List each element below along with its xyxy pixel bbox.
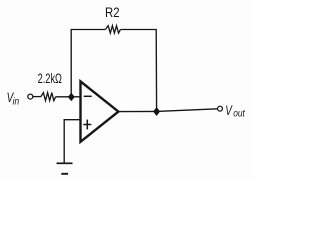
label 2.2kΩ <box>38 71 63 86</box>
svg-text:out: out <box>233 108 245 119</box>
op-amp minus sign <box>84 95 92 97</box>
op-amp plus sign <box>83 124 91 126</box>
wire ground to non-inverting input <box>64 120 81 164</box>
wire resistor to op-amp inverting input <box>56 96 81 98</box>
op-amp U1 triangle <box>81 81 119 141</box>
svg-text:in: in <box>13 96 20 107</box>
ground bar short <box>61 173 68 175</box>
node Vout terminal <box>218 106 223 111</box>
ground bar long <box>57 162 73 164</box>
wire junction to Vout terminal <box>157 109 218 112</box>
resistor R2 <box>105 26 120 33</box>
junction node at inverting input <box>69 93 75 100</box>
svg-text:R2: R2 <box>105 4 120 21</box>
label R2 <box>105 4 120 21</box>
wire top-right feedback segment <box>121 30 157 112</box>
svg-text:V: V <box>225 102 233 118</box>
wire op-amp output to junction <box>118 110 156 112</box>
svg-text:2.2kΩ: 2.2kΩ <box>38 71 63 86</box>
wire top-left feedback segment <box>71 30 105 97</box>
label Vin <box>7 89 20 106</box>
junction node at output <box>154 108 160 115</box>
resistor 2.2k <box>41 93 56 101</box>
node Vin terminal <box>28 94 33 99</box>
wire Vin to resistor <box>33 96 41 98</box>
label Vout <box>225 102 245 119</box>
